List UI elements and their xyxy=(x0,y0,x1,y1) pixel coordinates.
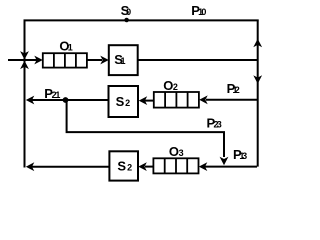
svg-text:O2: O2 xyxy=(163,78,178,93)
svg-text:P12: P12 xyxy=(227,81,240,96)
svg-text:O3: O3 xyxy=(169,144,184,159)
svg-text:P23: P23 xyxy=(207,116,222,131)
svg-text:P21: P21 xyxy=(44,86,60,101)
svg-text:P10: P10 xyxy=(191,3,206,18)
svg-text:O1: O1 xyxy=(59,39,72,54)
svg-text:P13: P13 xyxy=(233,147,247,162)
svg-text:S0: S0 xyxy=(121,3,132,18)
